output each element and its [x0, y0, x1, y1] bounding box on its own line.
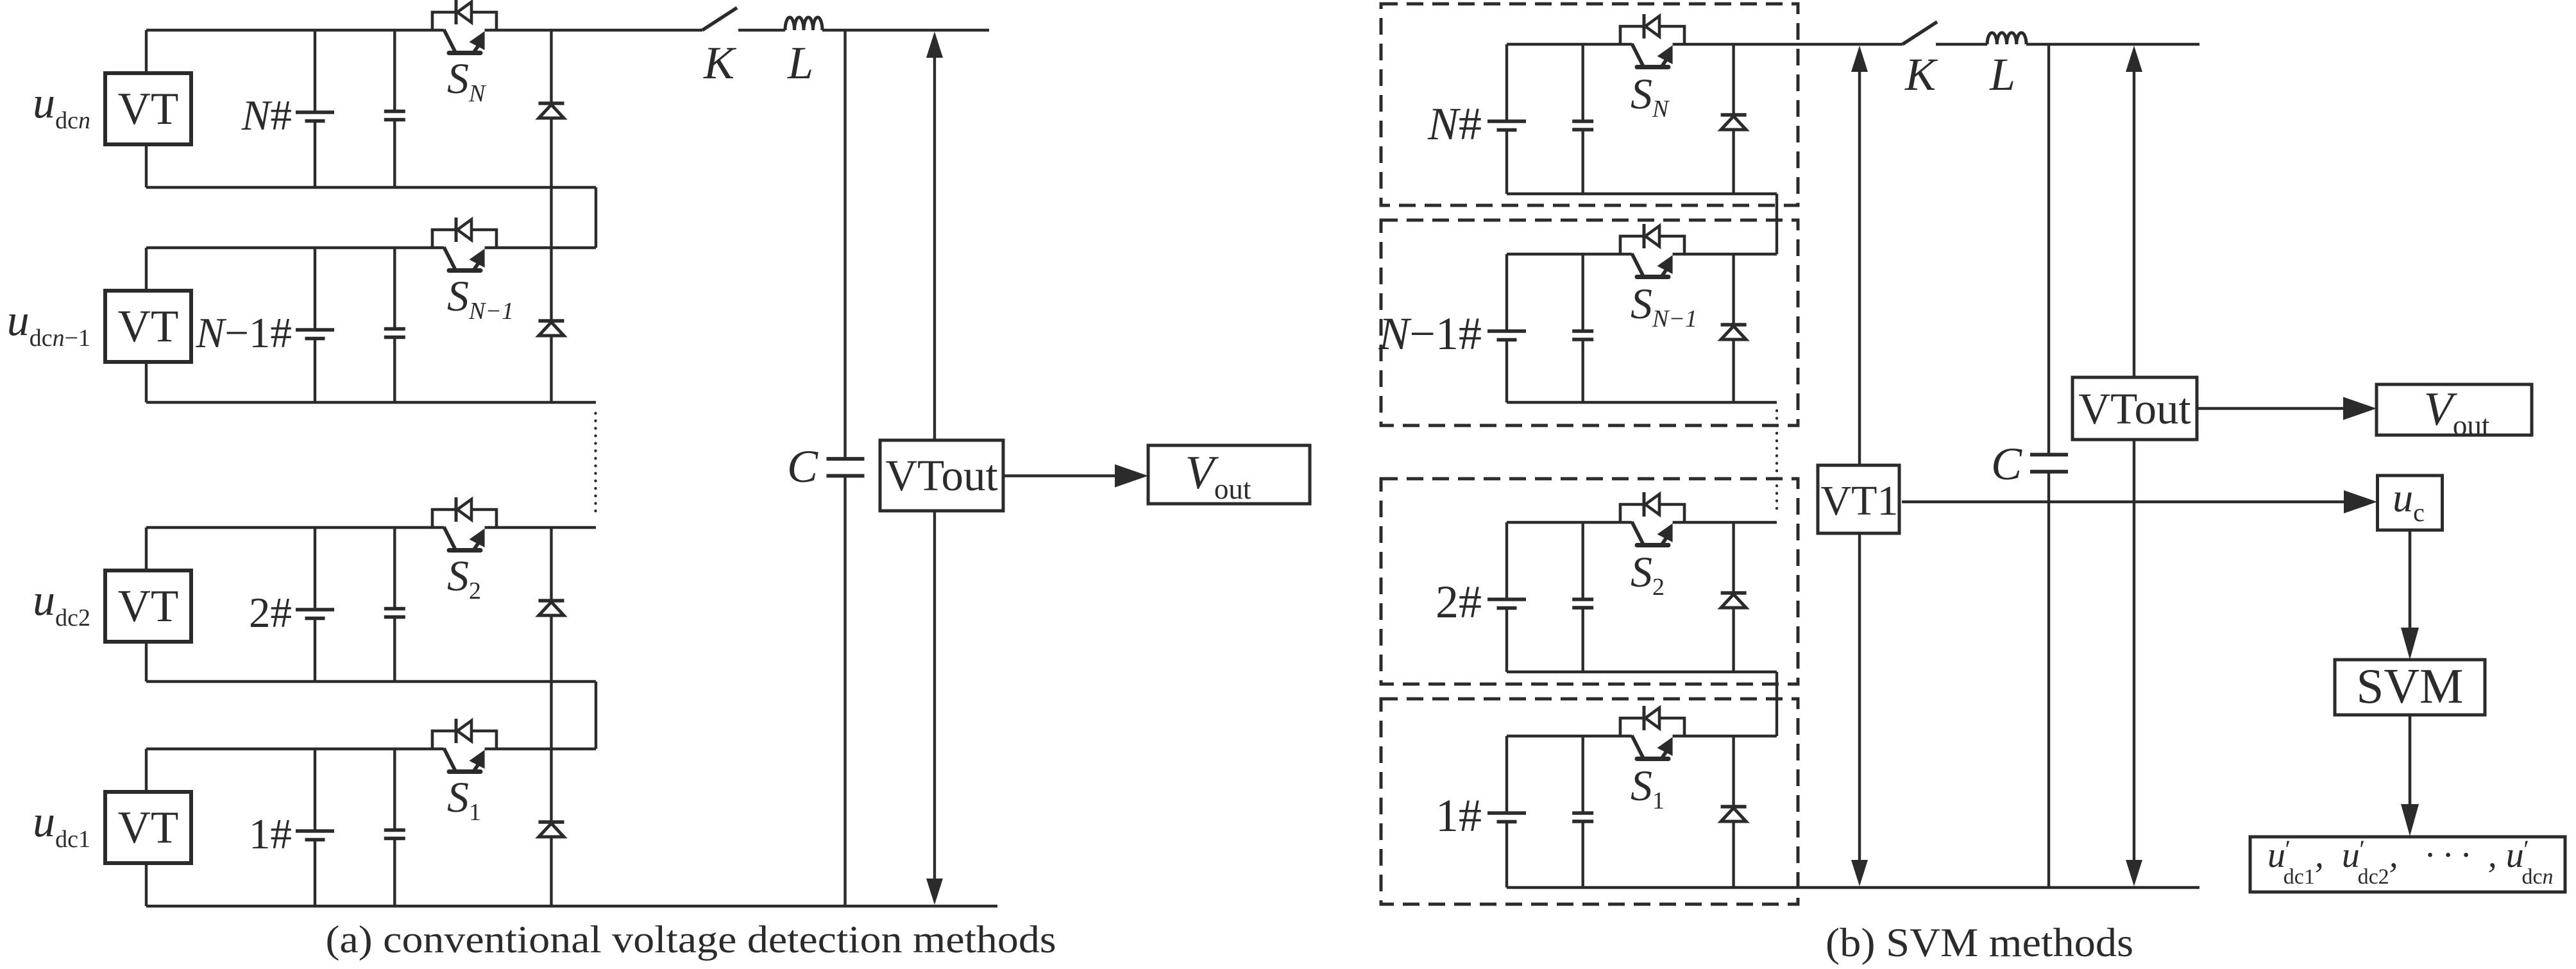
arrowhead into outputs (b) — [2401, 804, 2419, 836]
wire cell N-1(b) top rail — [1507, 253, 1632, 255]
capacitor cell N-1(a) — [384, 327, 405, 331]
wire top bus (b) after S_N — [1673, 43, 1902, 46]
transistor S_2(b) loop diode — [1645, 494, 1659, 515]
svg-text:(a) conventional voltage detec: (a) conventional voltage detection metho… — [326, 918, 1056, 961]
wire cell N(a) left leg — [145, 30, 148, 73]
wire cell 1(a) bottom rail — [146, 905, 997, 907]
arrowhead down VTout (b) — [2126, 860, 2142, 886]
wire battery branch cell N-1(b) — [1505, 254, 1508, 331]
wire cell N-1(b) bottom rail — [1507, 401, 1777, 404]
wire C branch (a) — [843, 30, 846, 459]
svg-text:VT: VT — [118, 803, 179, 853]
block VT transducer cell N(a) — [105, 73, 191, 144]
svg-text:VT: VT — [118, 84, 179, 134]
wire measurement arrow line (a) — [933, 56, 936, 880]
capacitor cell 2(b) — [1572, 597, 1593, 601]
transistor S_N(b) loop diode — [1645, 16, 1659, 37]
wire diode branch cell 2(a) — [550, 527, 552, 749]
wire cell 1(a) top rail — [146, 748, 444, 750]
svg-text:VT1: VT1 — [1821, 477, 1899, 524]
capacitor C (a) — [827, 457, 865, 461]
wire SVM to outputs arrow (b) — [2409, 715, 2412, 804]
wire battery branch cell 1(b) — [1505, 736, 1508, 813]
transistor S_N(a) loop diode — [457, 2, 471, 22]
dashed module box cell N(b) — [1381, 4, 1798, 205]
wire C branch (b) — [2047, 44, 2050, 455]
wire cell 2(b) bottom rail — [1507, 671, 1777, 673]
wire diode branch cell 2(b) — [1732, 522, 1734, 672]
transistor S_2(a) loop diode — [457, 499, 471, 520]
svg-text:K: K — [703, 37, 737, 89]
arrowhead to u_c (b) — [2344, 490, 2377, 513]
svg-text:C: C — [787, 441, 818, 492]
wire capacitor branch cell 2(b) — [1581, 522, 1584, 599]
capacitor C (b) — [2030, 453, 2068, 457]
battery cell 2#(b) — [1487, 597, 1526, 601]
block SVM (b) — [2335, 660, 2485, 715]
battery cell 1#(b) — [1487, 811, 1526, 815]
wire battery branch cell 1(a) — [314, 749, 316, 831]
arrowhead into SVM (b) — [2401, 628, 2419, 660]
wire battery branch cell N(a) — [314, 30, 316, 112]
capacitor cell 2(a) — [384, 607, 405, 611]
wire capacitor branch cell N-1(b) — [1581, 254, 1584, 331]
wire dotted continuation (a) — [594, 413, 597, 517]
transistor S_N(a) antiparallel-diode loop — [432, 12, 496, 30]
wire top bus (a) K to L — [738, 29, 785, 31]
diode D2(b) — [1721, 594, 1746, 608]
svg-text:N−1#: N−1# — [1378, 308, 1482, 359]
transistor S_1(a) loop diode — [457, 721, 471, 741]
svg-text:VTout: VTout — [2078, 384, 2190, 433]
wire cell 1(b) top rail — [1507, 735, 1632, 737]
svg-text:2#: 2# — [1436, 576, 1482, 628]
wire capacitor branch cell 1(a) — [393, 749, 396, 830]
wire top bus (a) after L — [822, 29, 989, 31]
wire battery branch cell N-1(a) — [314, 248, 316, 330]
arrowhead up (a) — [926, 31, 943, 58]
transistor S_N−1(b) loop diode — [1645, 226, 1659, 246]
transistor S_2(a) body — [444, 527, 455, 549]
wire cell N(b) bottom rail — [1507, 193, 1777, 195]
wire top bus (b) K to L — [1936, 43, 1987, 46]
transistor S_1(a) antiparallel-diode loop — [432, 731, 496, 749]
wire step connector cell 2 to 1 (b) — [1775, 672, 1778, 736]
inductor L (a) — [785, 17, 822, 30]
arrowhead to V_out (b) — [2343, 397, 2377, 420]
block VT transducer cell 1(a) — [105, 792, 191, 863]
wire cell 1(b) bottom rail — [1507, 886, 2199, 889]
svg-text:N#: N# — [1427, 98, 1482, 150]
capacitor cell N-1(b) — [1572, 329, 1593, 333]
arrowhead down VT1 (b) — [1851, 860, 1868, 886]
wire cell 1(a) left leg — [145, 749, 148, 792]
wire cell N(a) bottom rail — [146, 186, 596, 189]
dashed module box cell 2(b) — [1381, 479, 1798, 684]
diode D2(a) — [539, 602, 564, 615]
diode D1(a) — [539, 823, 564, 837]
wire top bus (a) after S_N — [485, 29, 702, 31]
block VTout (a) — [880, 440, 1003, 511]
transistor S_N−1(a) antiparallel-diode loop — [432, 230, 496, 248]
wire diode branch cell 1(a) — [550, 749, 552, 906]
capacitor cell N(a) — [384, 110, 405, 114]
wire cell N-1(a) left leg — [145, 248, 148, 291]
switch K (b) lever — [1902, 22, 1937, 44]
diode DN−1(b) — [1721, 326, 1746, 339]
wire cell 2(a) bottom rail — [146, 680, 596, 683]
wire dotted continuation (b) — [1775, 411, 1778, 513]
transistor S_2(b) antiparallel-diode loop — [1620, 504, 1684, 522]
wire capacitor branch cell N(b) — [1581, 44, 1584, 121]
transistor S_N(b) body — [1632, 44, 1643, 66]
capacitor cell 1(b) — [1572, 811, 1593, 815]
transistor S_N−1(b) antiparallel-diode loop — [1620, 236, 1684, 254]
wire VTout output arrow (a) — [1003, 474, 1116, 477]
wire diode branch cell N-1(b) — [1732, 254, 1734, 402]
wire battery branch cell N(b) — [1505, 44, 1508, 121]
wire cell N(a) top rail — [146, 29, 444, 31]
wire diode branch cell N-1(a) — [550, 248, 552, 402]
battery cell N-1#(b) — [1487, 329, 1526, 333]
wire measurement arrow line VT1 (b) — [1858, 56, 1861, 876]
svg-text:C: C — [1991, 438, 2022, 490]
block V_out (b) — [2377, 384, 2532, 435]
wire capacitor branch cell 2(a) — [393, 527, 396, 609]
transistor S_N−1(a) loop diode — [457, 219, 471, 240]
switch K (a) lever — [702, 8, 737, 30]
wire cell N-1(a) bottom rail — [146, 401, 596, 404]
diode DN(b) — [1721, 116, 1746, 130]
diode DN(a) — [539, 105, 564, 118]
svg-text:N#: N# — [241, 92, 292, 139]
transistor S_N(b) antiparallel-diode loop — [1620, 26, 1684, 44]
wire battery branch cell 2(b) — [1505, 522, 1508, 599]
svg-text:1#: 1# — [1436, 790, 1482, 841]
wire capacitor branch cell 1(b) — [1581, 736, 1584, 813]
arrowhead up VTout (b) — [2126, 46, 2142, 72]
block VT transducer cell 2(a) — [105, 570, 191, 642]
transistor S_1(b) antiparallel-diode loop — [1620, 718, 1684, 736]
block VT1 (b) — [1818, 465, 1899, 533]
inductor L (b) — [1987, 33, 2026, 44]
arrowhead to V_out (a) — [1115, 465, 1148, 488]
dashed module box cell N-1(b) — [1381, 220, 1798, 425]
svg-text:L: L — [787, 37, 813, 89]
capacitor cell 1(a) — [384, 828, 405, 832]
transistor S_N−1(b) body — [1632, 253, 1643, 276]
wire diode branch cell N(a) — [550, 30, 552, 248]
svg-text:N−1#: N−1# — [196, 309, 292, 357]
wire step connector cell 2 to 1 (a) — [595, 682, 597, 749]
wire step connector cell N to N-1 (a) — [595, 187, 597, 248]
block VTout (b) — [2072, 377, 2197, 440]
wire u_c to SVM arrow (b) — [2409, 530, 2412, 628]
transistor S_2(a) antiparallel-diode loop — [432, 510, 496, 527]
wire top bus (b) after L — [2026, 43, 2199, 46]
diode D1(b) — [1721, 808, 1746, 821]
battery cell N#(a) — [296, 110, 334, 114]
block u_c (b) — [2378, 476, 2443, 530]
wire measurement arrow line VTout (b) — [2133, 56, 2135, 876]
svg-text:(b) SVM methods: (b) SVM methods — [1826, 920, 2133, 965]
block VT transducer cell N-1(a) — [105, 291, 191, 362]
transistor S_N−1(a) body — [444, 247, 455, 270]
transistor S_1(a) body — [444, 748, 455, 771]
svg-text:VTout: VTout — [885, 451, 997, 500]
battery cell 2#(a) — [296, 608, 334, 612]
wire cell 2(b) top rail — [1507, 521, 1632, 524]
wire step connector cell N to N-1 (b) — [1775, 194, 1778, 254]
svg-text:SVM: SVM — [2357, 658, 2464, 714]
block estimated voltages u'dc1..u'dcn (b) — [2250, 837, 2565, 892]
capacitor cell N(b) — [1572, 119, 1593, 123]
svg-text:L: L — [1989, 49, 2015, 100]
wire cell 2(a) left leg — [145, 527, 148, 570]
transistor S_N(a) body — [444, 30, 455, 52]
arrowhead up VT1 (b) — [1851, 46, 1868, 72]
dashed module box cell 1(b) — [1381, 699, 1798, 904]
svg-text:VT: VT — [118, 581, 179, 631]
wire cell 2(a) top rail — [146, 526, 444, 529]
svg-text:K: K — [1904, 49, 1938, 100]
wire battery branch cell 2(a) — [314, 527, 316, 610]
wire VT1 output arrow to u_c (b) — [1902, 501, 2345, 504]
wire cell N-1(a) top rail — [146, 246, 444, 249]
wire VTout output arrow (b) — [2197, 407, 2344, 410]
transistor S_2(b) body — [1632, 522, 1643, 544]
svg-text:2#: 2# — [249, 589, 292, 637]
transistor S_1(b) loop diode — [1645, 708, 1659, 728]
arrowhead down (a) — [926, 879, 943, 905]
svg-text:VT: VT — [118, 302, 179, 352]
transistor S_1(b) body — [1632, 735, 1643, 758]
battery cell N-1#(a) — [296, 328, 334, 332]
wire capacitor branch cell N(a) — [393, 30, 396, 112]
wire diode branch cell N(b) — [1732, 44, 1734, 194]
diode DN−1(a) — [539, 322, 564, 336]
battery cell N#(b) — [1487, 119, 1526, 123]
wire diode branch cell 1(b) — [1732, 736, 1734, 888]
wire capacitor branch cell N-1(a) — [393, 248, 396, 329]
svg-text:1#: 1# — [249, 810, 292, 858]
block V_out (a) — [1148, 445, 1310, 504]
battery cell 1#(a) — [296, 829, 334, 833]
wire cell N(b) top rail — [1507, 43, 1632, 46]
